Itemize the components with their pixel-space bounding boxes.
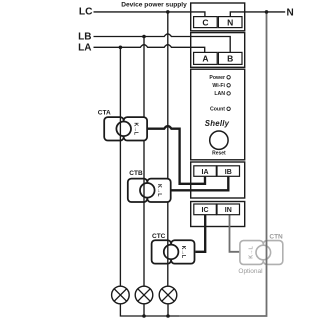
svg-text:Shelly: Shelly [205, 119, 230, 128]
svg-text:IB: IB [225, 169, 232, 176]
junction dot LA line [119, 46, 123, 50]
terminal N [218, 17, 242, 28]
svg-text:IA: IA [202, 169, 209, 176]
svg-text:Wi-Fi: Wi-Fi [212, 83, 225, 89]
svg-text:Reset: Reset [212, 151, 226, 157]
junction dot LC line [166, 10, 170, 14]
wire lamp 2 stem to bottom line [143, 304, 145, 316]
svg-text:Count: Count [210, 106, 225, 112]
svg-text:K→L: K→L [133, 123, 139, 136]
svg-text:Optional: Optional [238, 268, 263, 275]
terminal C [194, 17, 218, 28]
svg-text:K→L: K→L [156, 184, 162, 197]
wire phase B drop from LB line through CTB to lamp 2 [143, 37, 145, 287]
terminal IC [194, 204, 217, 215]
junction dot bottom line lamp 3 [166, 314, 170, 318]
svg-text:CTN: CTN [269, 233, 283, 240]
device section IC/IN terminal block [191, 202, 245, 227]
device section A/B terminal block [191, 33, 245, 68]
lamp 3 [159, 286, 177, 304]
svg-text:Power: Power [209, 75, 225, 81]
svg-text:LAN: LAN [214, 91, 225, 97]
terminal IN [217, 204, 240, 215]
device main body [191, 69, 245, 160]
wire neutral N drop (gray) from N node to bottom line [179, 13, 267, 316]
current transformer CTC body [152, 239, 195, 264]
svg-text:IN: IN [225, 207, 232, 214]
svg-text:IC: IC [202, 207, 209, 214]
junction dot N line [265, 10, 269, 14]
wire CTN K-L lead to terminal IN (gray) [230, 215, 240, 252]
current transformer CTA body [104, 116, 147, 141]
wire N line from terminal N to N label [230, 12, 285, 17]
junction dot bottom line lamp 2 [142, 314, 146, 318]
wire lamp 3 stem to bottom line [167, 304, 169, 316]
wire phase C drop from LC line through CTC to lamp 3 [167, 12, 169, 286]
svg-text:LA: LA [78, 43, 91, 54]
svg-text:CTB: CTB [129, 170, 143, 177]
device section IA/IB terminal block [191, 162, 245, 198]
current transformer CTN body (optional, gray) [240, 240, 283, 265]
svg-text:Device power supply: Device power supply [121, 1, 187, 8]
wire phase A drop from LA line through CTA to lamp 1 [119, 47, 121, 286]
terminal A [194, 52, 218, 64]
lamp 2 [135, 286, 153, 304]
lamp 1 [112, 286, 130, 304]
junction dot LB line [142, 35, 146, 39]
svg-text:LB: LB [78, 32, 91, 43]
terminal B [218, 52, 242, 64]
svg-text:C: C [202, 17, 208, 27]
wire CTB K-L lead to terminal IB (thick) [171, 176, 229, 190]
svg-text:B: B [227, 53, 233, 63]
terminal IA [194, 166, 217, 177]
terminal IB [217, 166, 240, 177]
svg-text:LC: LC [79, 7, 93, 18]
svg-text:N: N [227, 17, 233, 27]
reset button [210, 131, 228, 149]
wire LC line with stub into terminal C [94, 12, 205, 17]
current transformer CTB body [128, 178, 171, 203]
svg-text:K→L: K→L [249, 246, 255, 259]
svg-text:CTA: CTA [98, 110, 111, 117]
wire LA line with hops over LB and LC drops and stub into terminal A [94, 45, 205, 53]
wire lamp 1 to neutral bottom line (black part) [120, 304, 179, 316]
svg-text:K→L: K→L [180, 246, 186, 259]
wire CTA K-L lead to terminal IA (thick, hop over phase C drop) [147, 126, 205, 184]
wire CTC K-L lead to terminal IC (thick) [195, 215, 205, 252]
wire LB line with hop over LC drop and stub into terminal B [94, 34, 231, 53]
svg-text:N: N [287, 8, 294, 19]
svg-text:CTC: CTC [152, 233, 166, 240]
svg-text:A: A [202, 53, 208, 63]
device section C/N terminal block [191, 3, 245, 31]
